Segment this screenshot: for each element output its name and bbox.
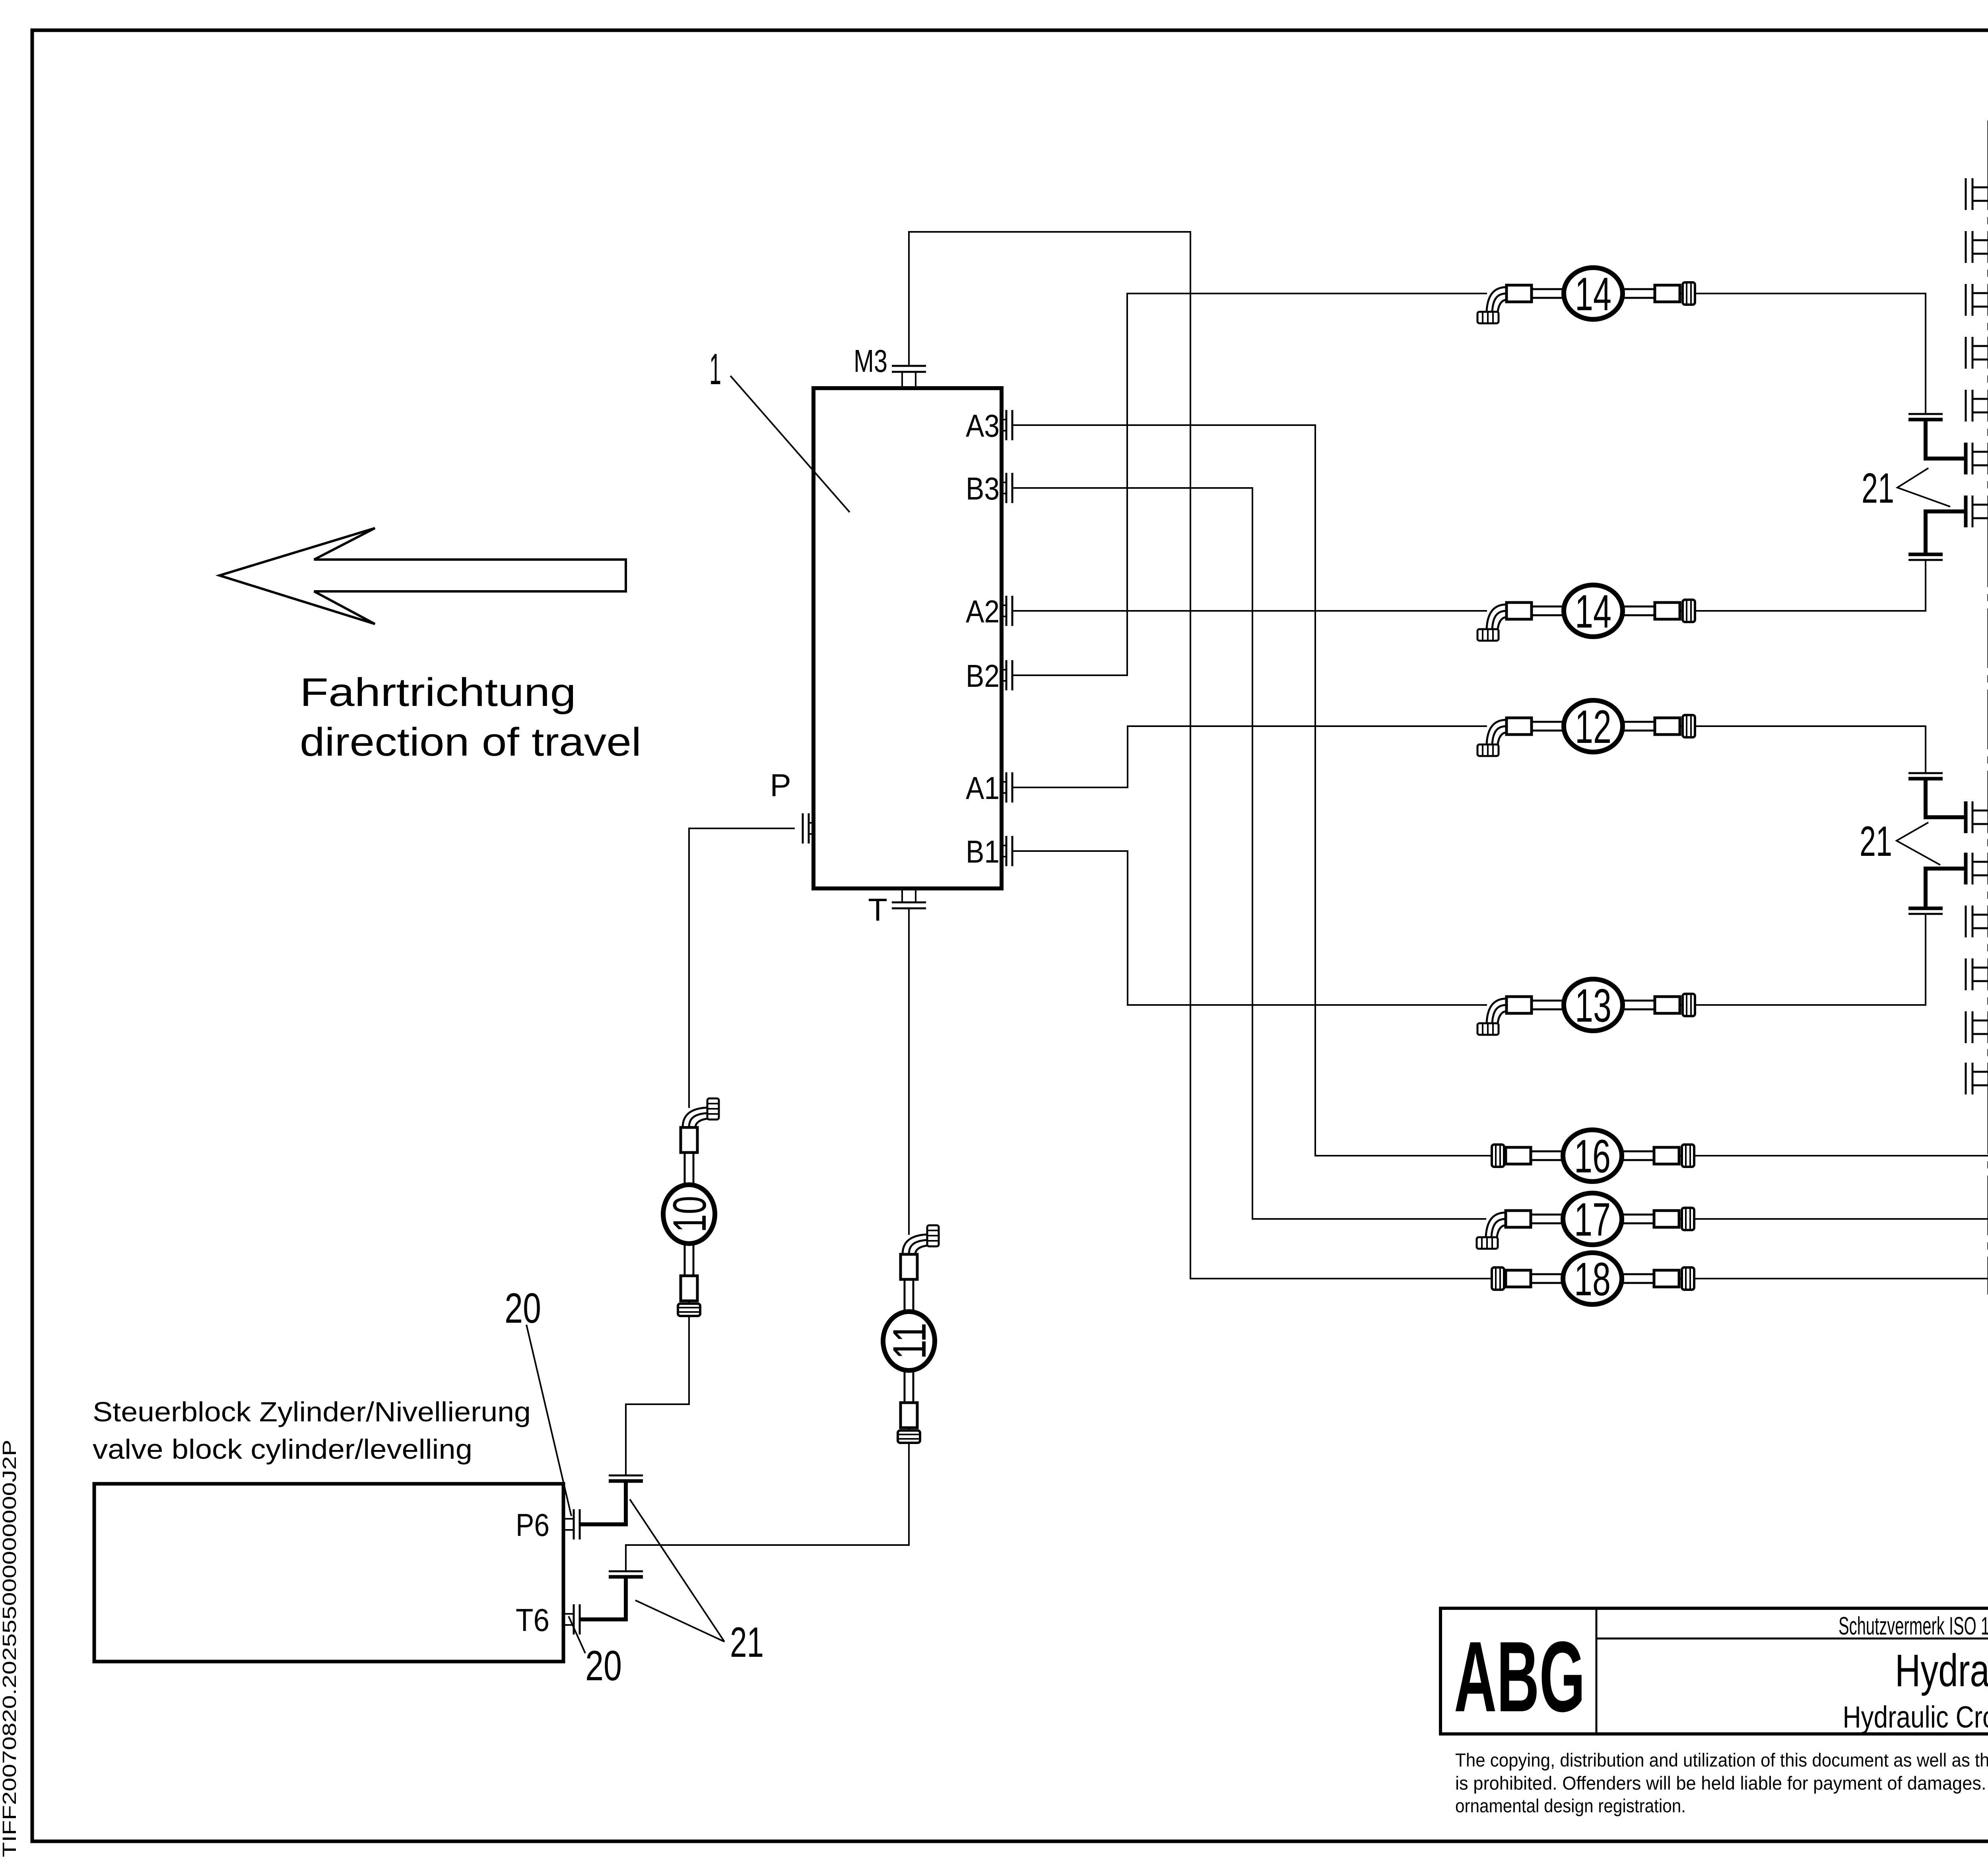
svg-text:M3: M3 [854, 343, 887, 379]
svg-text:20: 20 [585, 1642, 622, 1689]
svg-text:Hydraulic Crown/Vario: Hydraulic Crown/Vario [1843, 1700, 1988, 1734]
svg-text:B2: B2 [966, 658, 1000, 694]
svg-text:P6: P6 [516, 1507, 549, 1543]
svg-text:A2: A2 [966, 594, 1000, 629]
svg-text:1: 1 [709, 345, 721, 394]
svg-text:10: 10 [664, 1196, 716, 1232]
svg-text:P: P [770, 768, 791, 803]
svg-text:13: 13 [1575, 980, 1611, 1032]
svg-text:21: 21 [1860, 817, 1892, 865]
svg-text:The copying, distribution and: The copying, distribution and utilizatio… [1455, 1749, 1988, 1771]
svg-text:valve block cylinder/levelling: valve block cylinder/levelling [93, 1434, 472, 1465]
svg-text:Schutzvermerk ISO 16016 beacht: Schutzvermerk ISO 16016 beachten. [1839, 1612, 1988, 1640]
svg-text:T: T [868, 892, 887, 927]
svg-text:A3: A3 [966, 408, 1000, 443]
svg-text:17: 17 [1574, 1193, 1611, 1246]
svg-text:Hydraulik: Hydraulik [1895, 1645, 1988, 1696]
svg-text:B1: B1 [966, 834, 1000, 869]
svg-text:A1: A1 [966, 770, 1000, 806]
svg-text:21: 21 [730, 1618, 764, 1666]
svg-text:18: 18 [1574, 1253, 1611, 1306]
svg-text:14: 14 [1575, 268, 1611, 321]
svg-text:direction of travel: direction of travel [300, 720, 641, 764]
svg-text:Steuerblock Zylinder/Nivellier: Steuerblock Zylinder/Nivellierung [93, 1396, 531, 1427]
svg-text:ornamental design registration: ornamental design registration. [1455, 1795, 1686, 1816]
svg-text:TIFF20070820.202555000000000J2: TIFF20070820.202555000000000J2P [0, 1440, 20, 1857]
svg-text:is prohibited. Offenders will: is prohibited. Offenders will be held li… [1455, 1773, 1988, 1794]
svg-text:12: 12 [1575, 701, 1611, 753]
svg-text:B3: B3 [966, 471, 1000, 506]
svg-text:11: 11 [883, 1323, 936, 1359]
svg-text:21: 21 [1862, 464, 1894, 512]
svg-text:14: 14 [1575, 585, 1611, 638]
svg-text:Fahrtrichtung: Fahrtrichtung [300, 670, 576, 715]
svg-text:16: 16 [1574, 1130, 1611, 1183]
svg-text:ABG: ABG [1454, 1621, 1585, 1733]
svg-text:T6: T6 [516, 1602, 549, 1638]
svg-text:20: 20 [505, 1284, 541, 1332]
